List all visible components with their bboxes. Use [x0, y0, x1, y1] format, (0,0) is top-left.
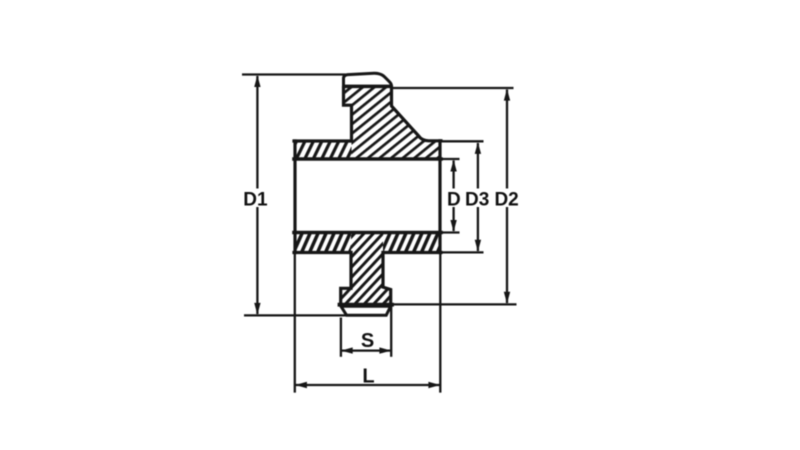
svg-text:L: L	[362, 365, 374, 387]
svg-text:D: D	[447, 189, 461, 210]
svg-text:D1: D1	[243, 189, 268, 210]
svg-text:S: S	[361, 330, 374, 352]
svg-text:D2: D2	[494, 189, 518, 210]
svg-text:D3: D3	[465, 189, 489, 210]
